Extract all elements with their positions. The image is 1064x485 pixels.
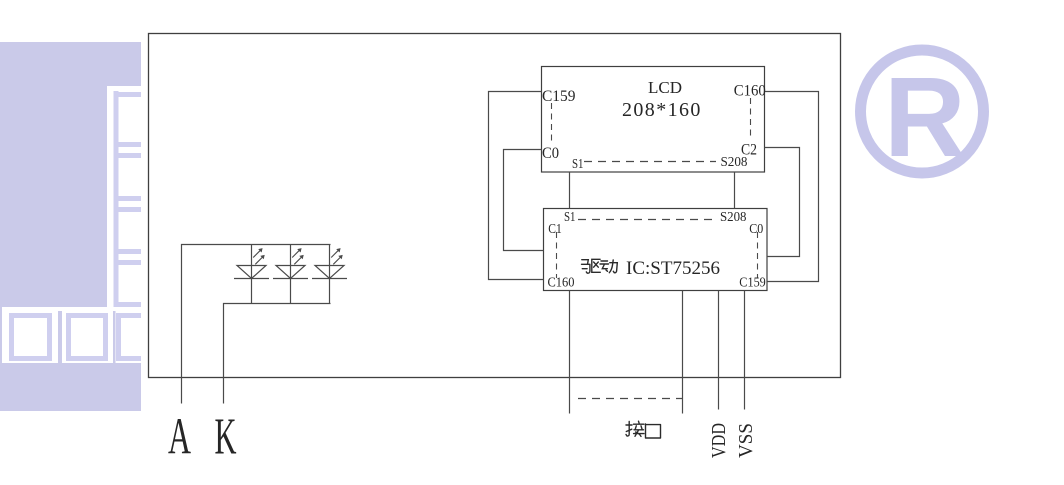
svg-text:S1: S1 — [572, 156, 584, 171]
LCD block — [542, 67, 765, 173]
wire VDD (driver bottom) — [718, 291, 720, 410]
LED D2 — [273, 245, 308, 304]
interface dashed bus line — [578, 398, 682, 400]
driver IC block — [544, 209, 768, 291]
svg-text:LCD: LCD — [648, 78, 682, 97]
watermark logo block (left) — [0, 42, 161, 411]
driver dashed segment row line S1-S208 — [578, 219, 716, 221]
svg-text:VSS: VSS — [735, 423, 757, 458]
backlight cathode rail and K lead — [224, 304, 331, 404]
LCD dashed column line left (C159 to C0) — [551, 103, 553, 144]
svg-text:S1: S1 — [564, 209, 576, 224]
svg-text:C0: C0 — [749, 221, 763, 236]
svg-text:VDD: VDD — [708, 423, 730, 458]
LED D1 — [234, 245, 269, 304]
wire LCD C159 to driver C160 (left outer) — [489, 92, 544, 280]
LCD dashed segment row line S1-S208 — [584, 161, 716, 163]
wire LCD C160 to driver C159 (right outer) — [765, 92, 819, 282]
svg-text:C159: C159 — [739, 275, 766, 290]
svg-text:C0: C0 — [542, 145, 559, 162]
svg-text:C1: C1 — [548, 221, 562, 236]
registered trademark logo R (top right) — [861, 50, 984, 180]
label 接口 (interface) hand-drawn glyphs — [626, 421, 661, 438]
svg-text:A: A — [168, 409, 191, 466]
svg-text:C160: C160 — [548, 275, 575, 290]
backlight anode rail and A lead — [182, 245, 331, 404]
svg-text:K: K — [215, 409, 237, 466]
wire LCD C0 to driver C1 (left inner) — [504, 150, 544, 251]
svg-text:R: R — [884, 54, 966, 180]
label 驱动 (drive) hand-drawn glyphs — [582, 259, 618, 273]
LED D3 — [312, 245, 347, 304]
svg-text:C160: C160 — [734, 83, 766, 100]
LCD dashed column line right (C160 to C2) — [750, 98, 752, 140]
svg-text:C159: C159 — [542, 88, 576, 105]
wire S208 LCD to driver — [734, 172, 736, 209]
wire LCD C2 to driver C0 (right inner) — [765, 148, 800, 257]
svg-text:208*160: 208*160 — [622, 99, 702, 121]
svg-text:S208: S208 — [720, 209, 747, 224]
interface wire 1 (driver bottom) — [569, 291, 571, 414]
wire VSS (driver bottom) — [744, 291, 746, 410]
driver dashed column line left (C1 to C160) — [556, 232, 558, 278]
module outline frame — [149, 34, 841, 378]
wire S1 LCD to driver — [569, 172, 571, 209]
interface wire 2 (driver bottom) — [682, 291, 684, 414]
svg-text:IC:ST75256: IC:ST75256 — [626, 258, 720, 279]
svg-text:S208: S208 — [721, 154, 748, 169]
driver dashed column line right (C0 to C159) — [757, 232, 759, 278]
